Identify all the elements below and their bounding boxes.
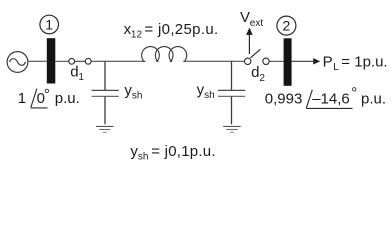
wire generator to bus1 (28, 60, 47, 62)
label y_sh value (bottom) (130, 143, 215, 163)
svg-text:V: V (240, 9, 250, 26)
inductor x12 (three-loop coil) (142, 47, 187, 65)
svg-text:d: d (70, 64, 78, 81)
svg-text:0,993: 0,993 (265, 90, 303, 107)
arrow P_L (load flow out of bus 2) (292, 58, 321, 64)
svg-text:sh: sh (138, 151, 149, 162)
node label 1 (40, 15, 59, 34)
label d1 (70, 64, 84, 84)
V_ext arrow (246, 28, 253, 54)
label x12 value (124, 21, 219, 41)
svg-text:p.u.: p.u. (55, 90, 80, 107)
wire d1 to inductor (through shunt tap node) (91, 60, 145, 62)
svg-text:= j0,25p.u.: = j0,25p.u. (144, 21, 218, 38)
svg-text:P: P (323, 54, 333, 71)
label V2 voltage: 0,993 angle -14,6 deg p.u. (265, 85, 386, 109)
bus 2 (284, 38, 292, 86)
wire inductor to switch d2 (through shunt tap node) (183, 60, 244, 62)
svg-text:–14,6: –14,6 (312, 90, 350, 107)
node label 2 (277, 16, 296, 35)
switch d1 (closed) (69, 58, 91, 64)
ground 1 (96, 126, 114, 132)
svg-text:L: L (333, 62, 339, 73)
svg-text:°: ° (351, 85, 357, 102)
label y_sh (right of cap 1) (124, 82, 142, 102)
switch d2 (open) (245, 49, 270, 64)
shunt capacitor ysh1 (92, 61, 119, 124)
svg-text:sh: sh (204, 90, 215, 101)
label y_sh (left of cap 2) (197, 81, 215, 101)
wire d2 to bus2 (269, 60, 283, 62)
svg-text:1: 1 (78, 72, 84, 83)
generator G1 (7, 52, 28, 73)
label V_ext (240, 9, 263, 29)
label d2 (251, 64, 265, 84)
svg-text:12: 12 (131, 29, 143, 40)
svg-text:1: 1 (18, 90, 26, 107)
svg-text:p.u.: p.u. (361, 90, 386, 107)
svg-text:= j0,1p.u.: = j0,1p.u. (151, 143, 216, 160)
svg-text:°: ° (44, 86, 50, 103)
svg-text:= 1p.u.: = 1p.u. (341, 54, 387, 71)
wire bus1 to switch d1 (56, 60, 69, 62)
svg-text:sh: sh (132, 90, 143, 101)
ground 2 (223, 126, 241, 132)
svg-text:1: 1 (45, 17, 53, 33)
svg-text:2: 2 (283, 18, 291, 34)
svg-text:d: d (251, 64, 259, 81)
bus 1 (47, 38, 56, 83)
label P_L value (323, 54, 388, 74)
svg-text:2: 2 (259, 73, 265, 84)
svg-text:ext: ext (250, 18, 264, 29)
shunt capacitor ysh2 (218, 61, 245, 124)
label V1 voltage: 1 angle 0 deg p.u. (18, 86, 80, 108)
